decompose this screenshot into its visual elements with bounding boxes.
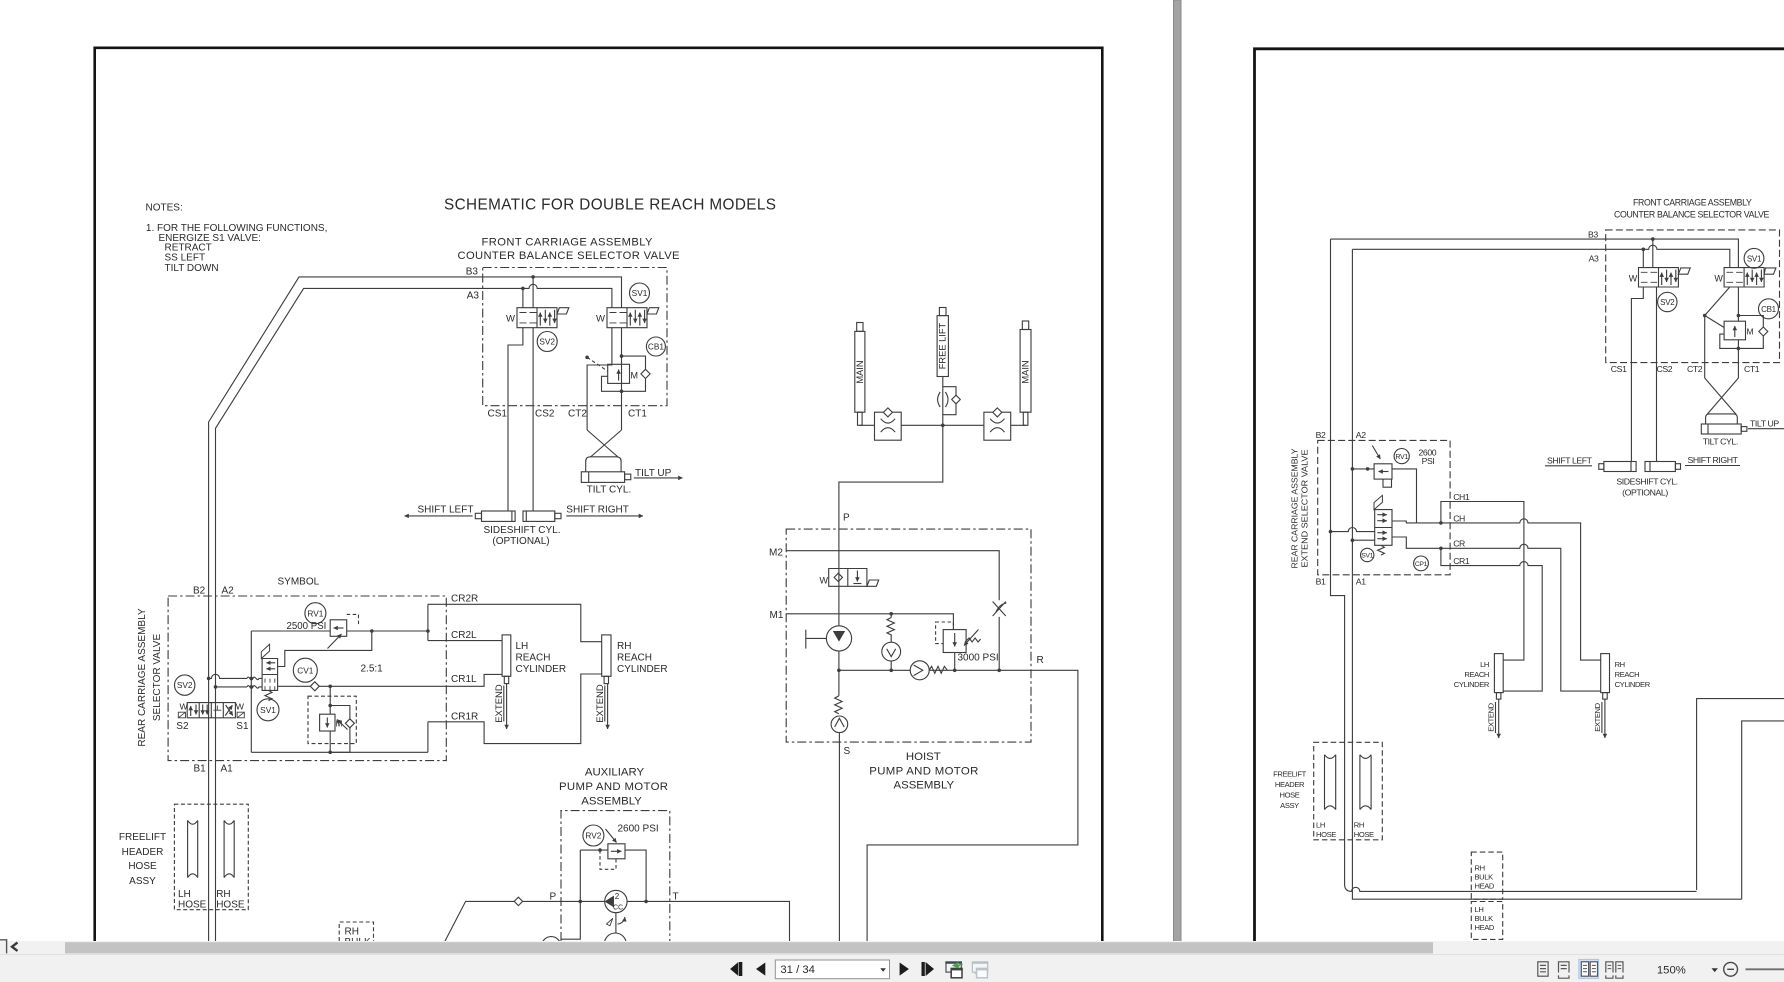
svg-text:PUMP AND MOTOR: PUMP AND MOTOR: [869, 765, 978, 777]
svg-text:M1: M1: [770, 610, 784, 621]
wire CR2R/CR2L link vertical: [427, 604, 429, 640]
rotation arrow: [618, 917, 625, 924]
relief valve RV1 body: [330, 620, 347, 637]
svg-text:RH: RH: [216, 889, 230, 900]
SV2 left cell dashes: [520, 313, 537, 323]
svg-text:CR: CR: [1453, 539, 1465, 549]
svg-text:FRONT CARRIAGE ASSEMBLY: FRONT CARRIAGE ASSEMBLY: [482, 237, 654, 249]
scrollbar thumb: [65, 942, 1433, 953]
SV1 left cell dashes: [610, 313, 627, 323]
svg-text:FRONT CARRIAGE ASSEMBLY: FRONT CARRIAGE ASSEMBLY: [1633, 198, 1752, 209]
relief valve RV2 body: [608, 844, 625, 859]
svg-text:CYLINDER: CYLINDER: [617, 664, 668, 675]
p2 RV1 tag circle: [1394, 449, 1409, 464]
SV1 solenoid: [647, 308, 659, 314]
svg-text:HOSE: HOSE: [216, 900, 245, 911]
SV2 right cell arrows: [539, 313, 541, 326]
CB1 bypass loop with check: [622, 356, 646, 391]
p2 wire B run: [1331, 239, 1697, 891]
inline diamond fitting: [514, 897, 522, 905]
hoist assembly dash box: [786, 529, 1031, 742]
solenoid valve SV2 body: [517, 308, 557, 328]
svg-text:REACH: REACH: [516, 653, 551, 664]
svg-text:COUNTER BALANCE SELECTOR VALVE: COUNTER BALANCE SELECTOR VALVE: [458, 250, 680, 262]
RH BULK dashed box: [339, 922, 373, 941]
svg-text:HOSE: HOSE: [1354, 830, 1374, 839]
svg-text:NOTES:: NOTES:: [146, 203, 183, 214]
p2 SV1 arrows: [1746, 273, 1748, 285]
CBV2 check diamond: [345, 719, 354, 728]
tilt cyl dome: [586, 457, 621, 472]
RH hose pulley: [224, 820, 234, 877]
p2 tilt cylinder: [1701, 424, 1741, 434]
svg-text:CC: CC: [613, 904, 623, 911]
svg-text:S1: S1: [236, 721, 249, 732]
svg-text:HOSE: HOSE: [178, 900, 207, 911]
LH hose pulley: [188, 820, 198, 877]
p2 solenoid valve SV2 body: [1639, 268, 1679, 287]
suction check circle: [831, 716, 848, 733]
sidebar toggle icon: [0, 940, 7, 954]
left velocity fuse: [875, 412, 902, 440]
p2 valve outputs: [1392, 521, 1441, 548]
p2 CB1 tag circle: [1759, 299, 1779, 319]
svg-text:S: S: [844, 746, 851, 757]
svg-text:ASSEMBLY: ASSEMBLY: [894, 779, 955, 791]
svg-text:3000 PSI: 3000 PSI: [958, 653, 999, 664]
wire A3 drop to SV2: [522, 288, 524, 307]
relief adjust arrow: [964, 630, 979, 646]
zoom slider line: [1746, 968, 1784, 970]
freelift drop wire: [839, 377, 943, 626]
svg-text:EXTEND: EXTEND: [1593, 702, 1602, 731]
gauge circle G: [542, 937, 561, 956]
p2 relief valve RV1 body: [1374, 464, 1392, 479]
svg-text:RV1: RV1: [307, 608, 323, 618]
svg-text:LH: LH: [1316, 821, 1325, 830]
svg-text:CP1: CP1: [1415, 561, 1428, 568]
RV2 adjust arrow: [606, 829, 617, 843]
svg-text:MAIN: MAIN: [1021, 360, 1031, 383]
p2 wire A3 line with hop: [1352, 245, 1729, 267]
junction dots hoist: [837, 669, 841, 673]
wire B3 run (long left pair outer): [209, 277, 622, 941]
SV1 tag circle: [630, 283, 650, 303]
svg-text:FREELIFT: FREELIFT: [119, 832, 166, 843]
CV1 tag circle: [293, 658, 317, 682]
svg-text:SV1: SV1: [260, 705, 276, 715]
p2 CB bypass loop: [1738, 316, 1763, 349]
svg-text:SV2: SV2: [539, 337, 555, 347]
p2 wire CR1 with hop: [1441, 548, 1542, 691]
svg-text:(OPTIONAL): (OPTIONAL): [1622, 487, 1668, 497]
svg-text:B3: B3: [1588, 230, 1598, 240]
wire RV1 feed vertical: [250, 631, 252, 752]
toolbar icon first page: [730, 962, 738, 976]
svg-text:HEAD: HEAD: [1475, 882, 1495, 891]
RV1 adjust arrow: [328, 634, 342, 649]
svg-text:BULK: BULK: [1475, 914, 1494, 923]
svg-text:31 / 34: 31 / 34: [780, 964, 815, 976]
svg-text:M: M: [1747, 327, 1754, 337]
svg-text:CYLINDER: CYLINDER: [1615, 680, 1651, 689]
sideshift right rod stub: [555, 513, 561, 518]
suction spring: [835, 696, 842, 714]
CB1 tag circle: [646, 337, 665, 356]
label FREELIFT HEADER HOSE ASSY: [119, 832, 166, 887]
page gap divider strip: [1174, 0, 1182, 942]
bypass spring check branch: [890, 614, 892, 671]
bottom toolbar background: [0, 955, 1784, 982]
svg-text:FREELIFT: FREELIFT: [1273, 770, 1306, 779]
page 2 border frame: [1255, 49, 1784, 982]
svg-text:CH: CH: [1453, 513, 1465, 523]
SV2 solenoid: [557, 308, 569, 314]
svg-text:SV1: SV1: [1361, 553, 1373, 560]
p2 label RH REACH CYLINDER: [1615, 660, 1651, 689]
p2 sideshift cylinder left: [1604, 462, 1636, 472]
svg-text:SHIFT LEFT: SHIFT LEFT: [1547, 455, 1593, 465]
freelift check diamond: [952, 395, 961, 404]
flow divider arrows: [266, 662, 275, 664]
shift left arrow: [405, 515, 473, 517]
gauge link wire: [561, 901, 581, 939]
svg-text:CT2: CT2: [1687, 364, 1703, 374]
p2 LH hose pulley: [1325, 755, 1336, 810]
p2 front carriage dash box: [1606, 230, 1780, 363]
4way cell arrows: [190, 706, 192, 716]
toolbar icon next page: [900, 963, 909, 976]
svg-text:B2: B2: [193, 586, 206, 597]
right MAIN cylinder: [1020, 330, 1031, 413]
svg-text:ASSY: ASSY: [1280, 801, 1299, 810]
svg-text:SV2: SV2: [1660, 298, 1675, 307]
freelift header hose dash box: [174, 804, 248, 910]
CB1 lower step: [602, 376, 622, 391]
svg-text:FREE LIFT: FREE LIFT: [938, 322, 948, 369]
svg-text:RH: RH: [617, 641, 631, 652]
wire A2 branch with hose squiggle: [216, 686, 263, 689]
RV1 pilot dashed box: [347, 614, 359, 626]
svg-text:HOSE: HOSE: [1280, 791, 1300, 800]
wire divider upper output: [278, 631, 372, 667]
svg-text:CS1: CS1: [488, 409, 508, 420]
svg-text:REAR CARRIAGE ASSEMBLY: REAR CARRIAGE ASSEMBLY: [1290, 448, 1300, 568]
check valve circle: [910, 661, 929, 680]
svg-text:RH: RH: [1615, 660, 1625, 669]
wire M2: [786, 551, 999, 671]
svg-text:B1: B1: [1316, 576, 1326, 586]
tilt cylinder rod stub: [625, 474, 631, 480]
p2 wire CR with hop: [1441, 544, 1601, 691]
manifold wire: [860, 424, 1026, 426]
svg-text:CS1: CS1: [1611, 364, 1627, 374]
solenoid valve SV1 body: [607, 308, 647, 328]
wire A3 run (long left pair inner) with hop: [216, 284, 612, 941]
CBV2 adjust arrow: [337, 720, 348, 730]
p2 label RH HOSE: [1354, 821, 1374, 840]
p2 SV1 tag circle small: [1361, 548, 1374, 561]
svg-text:HOSE: HOSE: [128, 861, 157, 872]
orifice diamond on CR1L: [310, 682, 319, 691]
svg-text:HOIST: HOIST: [906, 751, 941, 763]
svg-text:SV1: SV1: [632, 288, 648, 298]
svg-text:HOSE: HOSE: [1316, 830, 1336, 839]
svg-text:W: W: [506, 313, 515, 324]
svg-text:SYMBOL: SYMBOL: [278, 577, 320, 588]
wire CS1 from SV2: [508, 328, 523, 511]
svg-text:SHIFT RIGHT: SHIFT RIGHT: [1688, 455, 1739, 465]
p2 RH BULK HEAD dashed box: [1471, 852, 1502, 899]
label LH HOSE: [178, 889, 207, 911]
svg-text:BULK: BULK: [1475, 873, 1494, 882]
svg-text:CYLINDER: CYLINDER: [516, 664, 567, 675]
wire RV1 line: [251, 630, 428, 632]
label RH REACH CYLINDER: [617, 641, 668, 675]
wire CT2 from SV1: [587, 328, 612, 430]
p2 CB pilot line: [1705, 316, 1724, 328]
p2 tilt cross: [1705, 378, 1739, 415]
p2 wire B3 line: [1331, 239, 1739, 268]
svg-text:LH: LH: [1480, 660, 1489, 669]
p2 wire B2 branch with hop: [1331, 528, 1375, 532]
svg-text:M2: M2: [769, 548, 783, 559]
svg-text:B3: B3: [466, 267, 479, 278]
svg-text:S2: S2: [176, 721, 189, 732]
shaft triangle: [607, 918, 613, 926]
hydraulic pump: [826, 626, 851, 651]
p2 R corner wire: [1697, 699, 1784, 890]
wire B3 drop to SV2: [532, 277, 534, 308]
svg-text:COUNTER BALANCE SELECTOR VALVE: COUNTER BALANCE SELECTOR VALVE: [1614, 210, 1769, 221]
svg-text:CR2L: CR2L: [451, 630, 477, 641]
svg-text:CYLINDER: CYLINDER: [1454, 680, 1490, 689]
svg-text:CR1R: CR1R: [451, 712, 478, 723]
svg-text:REAR CARRIAGE ASSEMBLY: REAR CARRIAGE ASSEMBLY: [137, 608, 148, 747]
wire RV2 right: [625, 850, 646, 901]
p2 CP1 tag circle: [1414, 556, 1429, 571]
relief drain: [954, 653, 956, 671]
SV2 tag circle: [537, 332, 557, 352]
svg-text:SHIFT LEFT: SHIFT LEFT: [418, 505, 474, 516]
unloading valve 2/2: [829, 569, 867, 587]
svg-text:SHIFT RIGHT: SHIFT RIGHT: [566, 505, 629, 516]
svg-text:TILT DOWN: TILT DOWN: [165, 263, 219, 274]
p2 CB lower step: [1720, 334, 1739, 348]
p2 SV2 solenoid: [1678, 268, 1690, 274]
tilt cross wires: [587, 430, 621, 457]
svg-text:2.5:1: 2.5:1: [361, 664, 384, 675]
wire pump to motor: [615, 913, 617, 933]
svg-text:150%: 150%: [1657, 964, 1686, 976]
svg-text:REACH: REACH: [1615, 670, 1640, 679]
svg-text:CV1: CV1: [297, 665, 314, 675]
toolbar icon previous view: [946, 962, 961, 972]
FREE LIFT cylinder: [937, 316, 948, 377]
svg-text:A3: A3: [467, 291, 480, 302]
svg-text:SCHEMATIC FOR DOUBLE REACH MOD: SCHEMATIC FOR DOUBLE REACH MODELS: [444, 197, 776, 214]
svg-text:AUXILIARY: AUXILIARY: [585, 767, 645, 779]
svg-text:2500 PSI: 2500 PSI: [287, 621, 327, 632]
svg-text:TILT UP: TILT UP: [1750, 419, 1779, 429]
CBV2 branch: [329, 686, 331, 752]
svg-text:RV2: RV2: [585, 831, 601, 841]
svg-text:B2: B2: [1316, 430, 1326, 440]
CBV2 outer dashed box: [308, 696, 356, 743]
svg-text:HEAD: HEAD: [1475, 923, 1495, 932]
shift right arrow: [566, 515, 643, 517]
p2 label FREELIFT HEADER HOSE ASSY: [1273, 770, 1306, 811]
p2 counterbalance valve body: [1724, 321, 1745, 340]
svg-text:CB1: CB1: [1761, 305, 1777, 314]
toolbar icon continuous view: [1559, 962, 1570, 978]
svg-text:A2: A2: [222, 586, 235, 597]
p2 wire CT2 diagonal: [1705, 287, 1730, 378]
wire CS2 from SV2: [532, 328, 534, 511]
wire P T line: [443, 901, 789, 944]
svg-text:LH: LH: [516, 641, 529, 652]
wire CT1 from SV1: [621, 328, 623, 430]
zoom out button: [1724, 962, 1738, 976]
wire RV2 left: [580, 849, 608, 851]
svg-text:W: W: [596, 313, 605, 324]
p2 label LH HOSE: [1316, 821, 1336, 840]
needle valve: [993, 602, 1007, 617]
4way solenoid right: [237, 712, 244, 718]
svg-text:ASSEMBLY: ASSEMBLY: [581, 796, 642, 808]
RV1 tag circle: [305, 603, 326, 624]
junction dot A3: [521, 287, 525, 291]
p2 extend valve SV1 body: [1375, 510, 1392, 546]
junction dot B3: [531, 275, 535, 279]
relief spring: [966, 638, 981, 642]
svg-text:CH1: CH1: [1453, 492, 1470, 502]
RV2 tag circle: [583, 825, 604, 846]
svg-text:T: T: [673, 892, 679, 903]
svg-text:W: W: [1629, 274, 1638, 284]
svg-text:2600 PSI: 2600 PSI: [618, 824, 659, 835]
p2 SV1 tag circle: [1744, 248, 1764, 268]
page number input box: [775, 960, 889, 979]
tilt up arrow: [634, 477, 683, 479]
p2 A3 drop to SV2: [1642, 249, 1644, 267]
svg-text:EXTEND SELECTOR VALVE: EXTEND SELECTOR VALVE: [1300, 449, 1310, 567]
svg-text:W: W: [820, 576, 829, 586]
4way solenoid left: [178, 712, 185, 718]
p2 SV1 dashes: [1726, 272, 1742, 282]
SV1 tag circle rear: [257, 699, 279, 721]
p2 label LH REACH CYLINDER: [1454, 660, 1490, 689]
flow divider valve body: [262, 659, 278, 691]
svg-text:SIDESHIFT CYL.: SIDESHIFT CYL.: [483, 525, 560, 536]
p2 freelift dash box: [1314, 742, 1383, 840]
toolbar icon previous page: [756, 963, 765, 976]
svg-text:CT1: CT1: [628, 409, 647, 420]
svg-text:CS2: CS2: [1657, 364, 1673, 374]
svg-text:RH: RH: [345, 927, 359, 938]
sideshift cylinder right body: [523, 511, 555, 521]
svg-text:ASSY: ASSY: [129, 876, 156, 887]
svg-text:RV1: RV1: [1395, 454, 1408, 461]
svg-text:A1: A1: [221, 764, 234, 775]
p2 RH hose pulley: [1360, 755, 1371, 810]
zoom dropdown caret: [1712, 968, 1718, 972]
p2 LH BULK HEAD dashed box: [1471, 902, 1502, 940]
svg-text:R: R: [1037, 655, 1044, 666]
svg-text:P: P: [550, 892, 557, 903]
svg-text:SELECTOR VALVE: SELECTOR VALVE: [152, 634, 163, 722]
CBV2 check loop: [330, 706, 350, 753]
front carriage selector dash box: [483, 268, 667, 406]
left MAIN cylinder: [855, 331, 865, 412]
spring on R line: [929, 666, 947, 673]
sideshift cylinder left body: [482, 511, 516, 521]
SV1 right cell arrows: [629, 313, 631, 326]
wire R line: [839, 651, 1078, 941]
p2 SV2 arrows: [1661, 273, 1663, 285]
svg-text:A1: A1: [1356, 576, 1366, 586]
svg-text:TILT CYL.: TILT CYL.: [587, 485, 632, 496]
toolbar icon last page: [922, 962, 925, 976]
svg-text:B1: B1: [194, 764, 207, 775]
relief valve 3000 PSI body: [943, 630, 966, 653]
p2 wire CS1: [1631, 287, 1643, 462]
p2 B3 drop to SV2: [1652, 239, 1654, 268]
svg-text:SIDESHIFT CYL.: SIDESHIFT CYL.: [1616, 476, 1677, 486]
p2 wire CH1: [1441, 502, 1524, 661]
tilt cylinder body: [581, 472, 624, 483]
p2 wire CH with hop: [1441, 519, 1601, 660]
p2 wire A2 branch: [1352, 539, 1374, 541]
p2 wire CT1: [1737, 287, 1739, 378]
svg-text:TILT CYL.: TILT CYL.: [1703, 437, 1738, 447]
p2 S corner wire: [1742, 721, 1784, 899]
svg-text:CR1: CR1: [1453, 556, 1470, 566]
check valve diamond: [641, 369, 650, 378]
svg-text:A2: A2: [1356, 430, 1366, 440]
counterbalance valve CB1 body: [608, 364, 630, 383]
p2 LH reach cylinder: [1494, 654, 1503, 693]
svg-text:CB1: CB1: [648, 342, 665, 352]
svg-text:W: W: [1714, 274, 1723, 284]
toolbar icon single page view: [1538, 962, 1548, 976]
svg-text:RH: RH: [1354, 821, 1364, 830]
p2 wire CS2: [1656, 287, 1658, 462]
flow divider solenoid: [261, 644, 269, 658]
svg-text:PSI: PSI: [1422, 456, 1435, 466]
SV2 tag circle rear: [175, 675, 195, 695]
RV2 pilot dashed: [600, 850, 616, 869]
svg-text:M: M: [631, 370, 639, 380]
svg-text:LH: LH: [178, 889, 191, 900]
freelift orifice loop: [943, 387, 956, 415]
motor circle M: [604, 933, 626, 955]
relief valve 3000 PSI pilot box: [936, 622, 954, 644]
wire CR2L: [428, 640, 502, 642]
toolbar icon two page view (active): [1579, 959, 1599, 978]
page 1 border frame: [95, 48, 1103, 982]
horizontal scrollbar track: [0, 941, 1784, 955]
p2 SV2 dashes: [1641, 272, 1657, 282]
pump shaft: [806, 630, 827, 649]
wire bottom return: [251, 722, 428, 753]
svg-text:W: W: [236, 702, 245, 712]
p2 extend valve arrows: [1377, 514, 1387, 516]
rear carriage dash box: [168, 596, 446, 761]
p2 SV1 solenoid: [1764, 268, 1776, 274]
wire CR1L from divider: [278, 674, 503, 686]
wire CR2R: [428, 604, 602, 641]
